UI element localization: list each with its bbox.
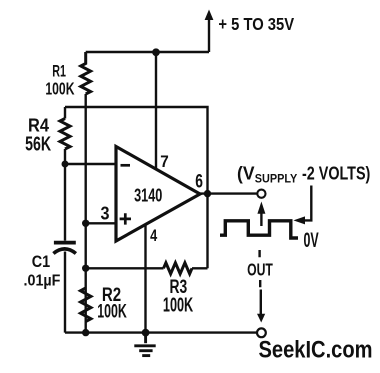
wire top supply rail	[86, 51, 209, 53]
wire R4 leads	[64, 107, 66, 164]
terminal output circle	[257, 190, 265, 198]
ground	[134, 333, 155, 356]
resistor R4	[60, 119, 70, 150]
svg-text:4: 4	[150, 227, 158, 245]
wire inverting input pin 2	[65, 163, 115, 165]
arrow up to output terminal	[257, 202, 265, 227]
svg-text:7: 7	[160, 153, 169, 171]
wire output pin 6	[200, 192, 257, 194]
node junction dot R4/C1 (inverting input)	[62, 161, 69, 168]
svg-text:3: 3	[101, 204, 110, 224]
power arrow +V	[205, 10, 214, 53]
wire feedback top (output to R4)	[65, 107, 208, 268]
arrow bent to waveform high level	[293, 186, 311, 225]
terminal output circle bottom	[257, 328, 266, 337]
wire middle rail column	[84, 94, 86, 333]
wire pin 7 supply	[155, 52, 157, 168]
svg-text:OUT: OUT	[247, 260, 273, 280]
svg-text:SeekIC.com: SeekIC.com	[259, 337, 373, 364]
svg-text:6: 6	[195, 171, 203, 192]
svg-text:3140: 3140	[134, 184, 162, 205]
svg-text:100K: 100K	[97, 302, 127, 323]
op-amp minus sign	[121, 164, 131, 167]
node junction dot R3 tap	[82, 265, 89, 272]
capacitor C1	[53, 243, 76, 254]
svg-text:R4: R4	[28, 115, 50, 136]
svg-text:(V: (V	[237, 163, 255, 184]
svg-text:.01µF: .01µF	[24, 273, 61, 290]
node junction dot top rail	[152, 48, 160, 56]
resistor R3	[164, 263, 193, 274]
wire R3 feedback	[86, 267, 208, 269]
node junction dot R2 bottom	[82, 329, 89, 336]
node junction dot pin3 tap	[82, 220, 89, 227]
svg-text:C1: C1	[32, 252, 50, 271]
wire bottom ground rail	[65, 331, 257, 333]
svg-text:SUPPLY: SUPPLY	[255, 174, 298, 186]
resistor R2	[81, 288, 91, 322]
svg-text:56K: 56K	[25, 134, 51, 156]
node junction dot output	[204, 190, 211, 197]
arrow down to bottom terminal	[257, 290, 265, 323]
op-amp plus sign	[120, 213, 131, 224]
svg-text:-2 VOLTS): -2 VOLTS)	[302, 164, 370, 184]
op-amp U1 triangle	[116, 147, 200, 242]
svg-text:+ 5 TO 35V: + 5 TO 35V	[218, 14, 294, 34]
svg-text:100K: 100K	[163, 295, 194, 317]
svg-text:0V: 0V	[304, 229, 319, 252]
waveform square wave	[220, 221, 298, 238]
dashed out line	[258, 250, 261, 287]
wire pin 4 to ground rail	[144, 224, 146, 332]
wire C1 branch	[64, 164, 66, 333]
node junction dot pin4 ground	[142, 329, 150, 337]
resistor R1	[81, 52, 91, 94]
svg-text:100K: 100K	[45, 79, 74, 99]
wire non-inverting input pin 3	[86, 222, 115, 224]
